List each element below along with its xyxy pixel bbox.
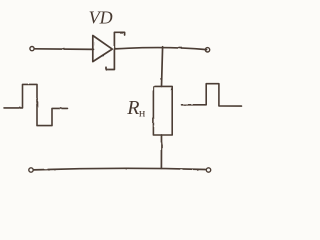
svg-text:VD: VD [89, 7, 113, 27]
input waveform: bipolar pulse [4, 84, 68, 125]
terminal: output bottom [206, 168, 210, 172]
terminal: input top [30, 47, 34, 51]
diode VD cathode bar with hooks [106, 32, 125, 69]
output waveform: positive pulse only [182, 84, 242, 106]
wire: bottom rail [33, 168, 205, 170]
terminal: output top [205, 48, 209, 52]
wire: resistor bottom to ground rail [160, 135, 162, 168]
wire: junction down to resistor top [162, 47, 163, 87]
svg-text:Rн: Rн [126, 97, 146, 119]
resistor R_H body [153, 86, 172, 135]
terminal: input bottom [29, 168, 33, 172]
wire: input terminal to diode anode [35, 48, 94, 51]
diode VD (Schottky) triangle [93, 36, 112, 62]
wire: diode cathode to output terminal [114, 48, 206, 50]
